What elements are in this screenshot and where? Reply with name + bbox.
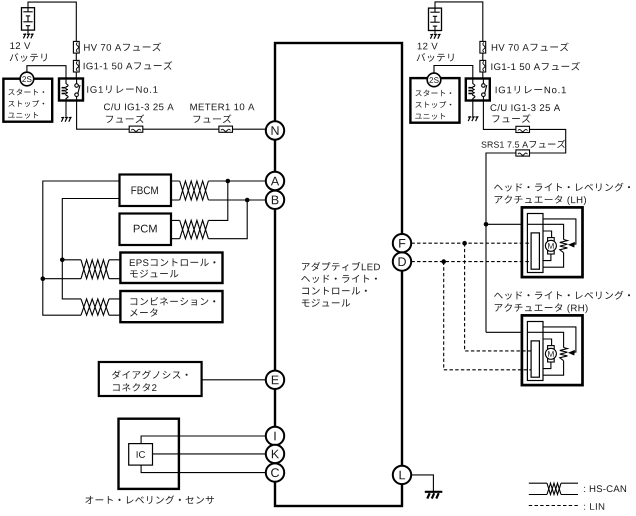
wire: FBCM left pin to outer rail bbox=[43, 181, 121, 315]
node K bbox=[266, 445, 284, 463]
junction dot CAN-H bbox=[226, 179, 231, 184]
LIN bus: D branch down to RH actuator bbox=[444, 262, 531, 370]
node L bbox=[393, 466, 411, 484]
wire: PCM pin2 to CAN junction B bbox=[171, 200, 247, 239]
label HV 70A fuse (left) bbox=[84, 44, 89, 51]
wire: rail to LH actuator feed bbox=[486, 223, 527, 225]
wire: right HV to IG1-1 fuse bbox=[482, 53, 484, 60]
label C/U IG1-3 25A fuse (right) bbox=[490, 104, 496, 111]
wire: connector to motor top bbox=[543, 231, 552, 238]
legend label HS-CAN bbox=[583, 487, 586, 492]
IC block bbox=[129, 444, 153, 466]
wire: feed to sensor resistor top bbox=[543, 224, 564, 239]
start-stop unit box (left) bbox=[3, 79, 52, 122]
fuse IG1-1 50A (left) bbox=[73, 60, 79, 72]
node N bbox=[266, 121, 284, 139]
label IG1-1 50A fuse (left) bbox=[83, 63, 86, 70]
node C bbox=[266, 463, 284, 481]
ground at node L bbox=[425, 491, 443, 493]
node 2S (left) bbox=[20, 72, 34, 86]
junction dot inner rail / EPS bbox=[60, 258, 65, 263]
fuse HV 70A (left) bbox=[73, 41, 79, 53]
wire: right 2S to relay coil bbox=[434, 66, 473, 79]
node E bbox=[266, 371, 284, 389]
legend label LIN bbox=[583, 505, 586, 510]
node F bbox=[393, 234, 411, 252]
label headlight leveling actuator RH bbox=[494, 293, 503, 299]
twisted pair PCM (HS-CAN) bbox=[180, 215, 209, 243]
wire: motor bottom return bbox=[543, 254, 551, 261]
wire: FBCM right pin2 to node B bbox=[171, 199, 266, 201]
relay IG1 No.1 (left) bbox=[59, 79, 83, 101]
wire: connector to wiper arrow bbox=[543, 219, 576, 244]
node 2S (right) bbox=[427, 73, 441, 87]
wire: diagnosis connector to node E bbox=[202, 379, 266, 381]
fuse HV 70A (right) bbox=[480, 41, 486, 53]
actuator housing bbox=[522, 207, 583, 277]
ground under right battery bbox=[434, 31, 436, 34]
label IG1-1 50A fuse (right) bbox=[490, 63, 493, 70]
wire: relay coil to ground (left) bbox=[65, 101, 67, 117]
label METER1 10A fuse bbox=[190, 104, 196, 111]
LIN bus: node F to LH actuator bbox=[411, 242, 531, 244]
ground under right relay bbox=[468, 116, 471, 118]
label headlight leveling actuator LH bbox=[494, 185, 503, 191]
fuse C/U IG1-3 25A (left) bbox=[129, 126, 143, 132]
node B bbox=[266, 191, 284, 209]
wire: sensor to node I bbox=[141, 436, 266, 444]
wire: sensor to node C bbox=[141, 465, 266, 473]
junction dot LH feed bbox=[484, 222, 489, 227]
motor M bbox=[548, 346, 555, 349]
fuse METER1 10A bbox=[219, 126, 233, 132]
label 12V battery (right) bbox=[418, 43, 422, 50]
wiper arrow bbox=[568, 242, 575, 248]
position sensor resistor bbox=[560, 240, 568, 253]
legend LIN dashed symbol bbox=[529, 505, 578, 507]
EPS control module box bbox=[120, 253, 222, 284]
wire: sensor resistor bottom return bbox=[543, 361, 564, 376]
motor M bbox=[548, 238, 555, 241]
combination meter box bbox=[120, 291, 222, 322]
label IG1 relay No.1 (left) bbox=[86, 86, 89, 93]
actuator housing bbox=[522, 315, 583, 385]
twisted pair EPS (HS-CAN) bbox=[81, 255, 109, 284]
wire: feed to sensor resistor top bbox=[543, 332, 564, 347]
start-stop unit box (right) bbox=[410, 78, 459, 123]
wire: battery B+ to HV fuse rail bbox=[28, 2, 76, 41]
position sensor resistor bbox=[560, 348, 568, 361]
wire: rail bottom to RH actuator feed bbox=[486, 331, 527, 333]
battery 12V (right) bbox=[429, 8, 442, 30]
fuse C/U IG1-3 25A (right) bbox=[516, 126, 530, 132]
junction dot LIN D bbox=[441, 259, 446, 264]
PCM box bbox=[120, 214, 172, 246]
wire: FBCM left pin to inner rail bbox=[62, 199, 120, 299]
diagnosis connector 2 box bbox=[99, 362, 202, 396]
wire: feed through connector bbox=[527, 331, 543, 333]
auto leveling sensor box bbox=[119, 419, 179, 489]
relay IG1 No.1 (right) bbox=[466, 79, 490, 101]
label adaptive LED module bbox=[302, 263, 310, 270]
actuator connector bbox=[527, 214, 543, 273]
label C/U IG1-3 25A fuse (left) bbox=[104, 103, 110, 110]
junction dot LIN F bbox=[462, 241, 467, 246]
wire: right battery to HV fuse rail bbox=[435, 2, 483, 42]
battery 12V (left) bbox=[22, 8, 35, 30]
wire: start-stop unit 2S to relay coil bbox=[27, 66, 66, 79]
FBCM box bbox=[120, 175, 172, 207]
LIN bus: node D to LH actuator bbox=[411, 261, 531, 263]
junction dot CAN-L bbox=[245, 198, 250, 203]
wire: node L to ground bbox=[412, 475, 434, 491]
wire: sensor resistor bottom return bbox=[543, 253, 564, 268]
wire: feed through connector bbox=[527, 223, 543, 225]
junction dot outer rail / EPS bbox=[41, 276, 46, 281]
wire: FBCM right pin1 to node A bbox=[171, 180, 266, 182]
node D bbox=[393, 252, 411, 270]
label auto leveling sensor bbox=[85, 496, 93, 504]
wiper arrow bbox=[568, 350, 575, 356]
wire: relay output bus to node N bbox=[77, 101, 266, 130]
label 12V battery (left) bbox=[10, 42, 14, 49]
label IG1 relay No.1 (right) bbox=[495, 87, 498, 94]
wire: connector to motor top bbox=[543, 339, 552, 346]
label HV 70A fuse (right) bbox=[492, 44, 497, 51]
wire: right IG1-1 fuse to relay bbox=[482, 72, 484, 79]
ground under left relay bbox=[61, 116, 64, 118]
wire: HV fuse to IG1-1 fuse bbox=[75, 53, 77, 60]
wire: right relay through C/U and SRS fuses to actuator rail bbox=[483, 101, 565, 333]
wire: PCM pin1 to CAN junction A bbox=[171, 181, 228, 220]
LIN bus: F branch down to RH actuator bbox=[465, 243, 531, 351]
legend HS-CAN twisted pair symbol bbox=[529, 482, 547, 484]
twisted pair FBCM (HS-CAN) bbox=[180, 176, 209, 205]
wire: IG1-1 fuse to relay switch bbox=[75, 72, 77, 79]
wire: EPS to inner rail bbox=[62, 259, 120, 261]
wire: motor bottom return bbox=[543, 362, 551, 369]
wire: sensor to node K bbox=[153, 453, 267, 455]
wire: EPS to outer rail bbox=[43, 278, 121, 280]
wire: connector to wiper arrow bbox=[543, 327, 576, 352]
fuse SRS1 7.5A bbox=[516, 150, 530, 156]
node I bbox=[266, 427, 284, 445]
ground under left battery bbox=[27, 30, 29, 33]
actuator connector bbox=[527, 322, 543, 381]
adaptive LED headlight control module box bbox=[275, 43, 402, 506]
node A bbox=[266, 172, 284, 190]
wire: right relay coil to ground bbox=[472, 101, 474, 117]
label SRS1 7.5A fuse bbox=[481, 141, 486, 147]
fuse IG1-1 50A (right) bbox=[480, 60, 486, 72]
twisted pair combination meter (HS-CAN) bbox=[81, 294, 109, 320]
